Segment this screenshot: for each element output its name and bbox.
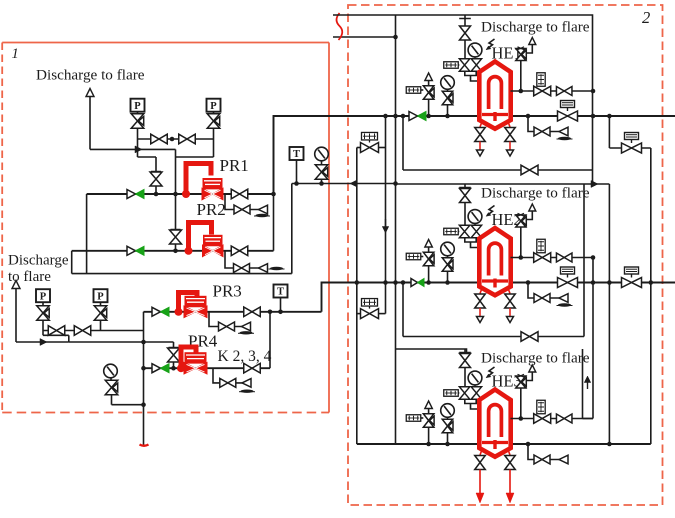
module HE2 flare valve column [464, 184, 466, 226]
flow arrow on flare header [135, 146, 142, 153]
pressure instrument P2 [207, 99, 221, 112]
letdown valve 1 [361, 143, 379, 153]
three-way valve under P4 [102, 309, 107, 318]
vent arrow HE1 [529, 38, 536, 45]
svg-text:PR1: PR1 [220, 156, 249, 175]
wire main inlet riser x143.5 [143, 312, 145, 445]
outlet valve HE1-1 [534, 86, 551, 96]
valve V2 on row y139 [179, 134, 196, 144]
wire jog drop x68.8 [68, 335, 70, 342]
pressure gauge G1 [315, 147, 329, 161]
drain branch blob HE2 [558, 303, 571, 306]
wire P3 column [42, 320, 44, 335]
wire header y342 to PR4 column [69, 341, 174, 343]
wire aftercooler drain branch HE1 [528, 116, 534, 132]
module HE1 flare valve column [464, 15, 466, 59]
pressure gauge HE3-a [468, 371, 482, 385]
hatched restriction HE3-a [444, 390, 459, 397]
vent arrow column HE3 [425, 401, 433, 409]
junction dot x272 y194 [271, 192, 276, 197]
valve on PR1 drain [234, 205, 250, 214]
drain branch blob HE1 [558, 137, 571, 140]
flare vent arrow A [86, 89, 94, 97]
wire riser x321.5 and main2 feed [322, 283, 346, 312]
vent arrow HE3 [529, 365, 536, 372]
red break tick on inlet riser [140, 445, 149, 446]
modules left edge x395.5 [395, 15, 397, 444]
svg-text:P: P [210, 101, 217, 112]
isolation valve on x156 [150, 172, 162, 186]
wire drain y404.7 [112, 404, 144, 406]
vent valve HE2 [522, 217, 527, 226]
pressure gauge HE1-b [441, 76, 455, 90]
wire letdown riser x356.8 [356, 148, 358, 445]
svg-text:1: 1 [12, 46, 19, 62]
module HE2 box right edge [583, 184, 585, 337]
isolation valve on x175.5 [170, 230, 182, 244]
wire flare riser B [15, 289, 17, 343]
motor valve HE2 on main [558, 278, 578, 288]
wire valve row y139 [138, 138, 214, 140]
pressure regulator PR1 [182, 190, 190, 198]
wire vent spur HE1 [526, 45, 532, 54]
wire aftercooler drain branch HE3 [528, 444, 534, 460]
wire column x650.8 [650, 148, 652, 444]
pressure regulator PR4 [177, 364, 185, 372]
heat exchanger vessel HE3 [479, 390, 510, 457]
wire column x175.5 [175, 149, 177, 194]
junction dot x156 y194 [154, 192, 159, 197]
wire riser x385.5 [385, 116, 387, 314]
wire gauge stem HE1 [447, 105, 449, 116]
svg-text:T: T [277, 287, 284, 298]
wire block valve bracket HE2 [465, 238, 476, 242]
double block valves HE3 [459, 387, 470, 400]
vent valve HE1 [522, 50, 527, 59]
junction dot x173.5 y368.2 [171, 366, 176, 371]
vessel tube sheet HE3 [482, 441, 508, 444]
heat exchanger vessel HE1 [479, 62, 510, 129]
gauge block valve HE2 [449, 260, 454, 269]
module HE3 box top [396, 349, 467, 355]
valve after PR2 [231, 246, 248, 256]
svg-text:Discharge to flare: Discharge to flare [36, 67, 145, 84]
pressure gauge HE2-a [468, 210, 482, 224]
vent three-way valve HE2 [430, 255, 435, 264]
vessel drain valve HE3 left [480, 451, 482, 455]
outlet valve HE2-2 [556, 253, 572, 262]
letdown bridge 1 wire [357, 147, 361, 149]
letdown valve 2 [361, 309, 379, 319]
double block valves HE2 [459, 225, 470, 238]
svg-text:K 2, 3, 4: K 2, 3, 4 [218, 348, 272, 365]
pressure regulator PR2 [185, 247, 193, 255]
valve V4 on row y330.5 [74, 326, 91, 336]
check valve CV1 [127, 190, 136, 199]
wire P1 column [137, 128, 139, 157]
wire riser x270 [269, 312, 271, 368]
wire PR1 pipe y194 [87, 193, 274, 195]
valve after PR4 [244, 363, 261, 373]
svg-text:Discharge to flare: Discharge to flare [481, 350, 590, 367]
vent three-way valve HE1 [430, 88, 435, 97]
letdown valve 2 actuator [362, 299, 378, 307]
module HE3 box right edge [582, 349, 584, 419]
vessel U-tube HE2 [489, 243, 502, 275]
pressure gauge HE1-a [468, 43, 482, 57]
flow arrow down on riser x385.5 [385, 219, 387, 231]
wire block valve bracket HE1 [465, 71, 476, 75]
valve V3 on row y330.5 [48, 326, 65, 336]
drain blob PR1 [256, 214, 269, 217]
junction dots on main 2 [426, 280, 431, 285]
motor valve HE1 on main [558, 111, 578, 121]
flare vent arrow B [12, 281, 20, 289]
valve V1 on row y139 [151, 134, 168, 144]
unit 2 boundary box [348, 5, 663, 505]
svg-text:Discharge to flare: Discharge to flare [481, 19, 590, 36]
three-way valve under P3 [44, 309, 49, 318]
wire valve row y330.5 [43, 330, 144, 332]
wire jog y335.3 [43, 334, 69, 336]
vessel vent column HE1 [520, 60, 522, 91]
vent valve HE3 [522, 378, 527, 387]
temperature instrument T2 [274, 285, 288, 298]
wire T2 stem [280, 298, 282, 312]
lightning flash HE3 [487, 367, 494, 377]
end cap PR3 drain [242, 322, 251, 331]
wire block valve bracket HE3 [465, 399, 476, 403]
wire main line 2 [345, 282, 675, 284]
svg-text:P: P [134, 101, 141, 112]
letdown bridge 2 wire [357, 313, 361, 315]
hatched column HE3 [537, 400, 545, 414]
outlet valve HE3-1 [534, 414, 551, 424]
module HE2 box top [396, 183, 610, 185]
vessel drain valve HE2 right [509, 290, 511, 294]
module HE3 flare valve column [464, 349, 466, 387]
wire bypass riser HE1 [402, 116, 404, 170]
pressure instrument P1 [131, 99, 145, 112]
hatched restriction HE1-a [444, 62, 459, 69]
svg-text:P: P [40, 291, 47, 302]
flow arrow on flare header B [40, 339, 47, 346]
pressure regulator PR3 [175, 308, 183, 316]
wire P4 stem [100, 302, 102, 306]
wire G1 stem [321, 161, 323, 165]
wire P4 column [100, 320, 102, 331]
pressure instrument P3 [36, 289, 50, 302]
check valve CV2 [127, 246, 136, 255]
wire main line 1 [345, 115, 675, 117]
wire vent spur HE2 [526, 211, 532, 220]
hatched restriction HE3-b [406, 415, 421, 422]
drain blob PR4 [241, 390, 254, 393]
svg-text:P: P [97, 291, 104, 302]
wire bypass line HE2 [403, 336, 584, 338]
bypass valve HE2 [521, 332, 538, 342]
wire T1 stem [296, 160, 298, 184]
vessel vent column HE3 [520, 388, 522, 419]
vessel drain valve HE1 left [480, 123, 482, 127]
wire sense line y183.5 [292, 183, 396, 185]
wire gauge stem HE2 [447, 271, 449, 282]
wire P2 stem [213, 112, 215, 114]
three-way valve under G2 [113, 383, 118, 392]
unit 1 boundary box [2, 42, 329, 44]
wire sense column x156 [155, 157, 157, 194]
wire jog y157 right [176, 156, 214, 158]
vessel drain valve HE1 right [509, 123, 511, 127]
wire G2 stem [110, 378, 112, 381]
bypass valve HE1 [521, 165, 538, 175]
heat exchanger vessel HE2 [479, 228, 510, 295]
check valve HE1 [409, 112, 418, 121]
svg-text:T: T [293, 149, 300, 160]
wire spare header y37 [333, 36, 396, 38]
vent arrow HE2 [529, 204, 536, 211]
flare isolation valve HE1 [460, 26, 471, 40]
junction dot PR4 feed [141, 366, 146, 371]
wire outlet nozzle line HE3 [511, 418, 594, 420]
junction dot x650.8 y282.5 [649, 280, 654, 285]
wire PR4 drain branch [213, 368, 220, 383]
red line-break squiggle [337, 13, 343, 40]
drain branch end cap HE2 [559, 294, 568, 303]
wire flare riser A [89, 97, 91, 150]
vent arrow column HE1 [425, 73, 433, 81]
isolation valve on x173.5 [168, 348, 180, 362]
wire main line 1 start [274, 116, 346, 194]
lightning flash HE1 [487, 39, 494, 49]
three-way valve under P1 [139, 117, 144, 126]
three-way valve under P2 [215, 117, 220, 126]
vessel drain valve HE2 left [480, 290, 482, 294]
flow arrow up beside x593 [587, 378, 589, 389]
motor valve MV-B [622, 278, 642, 288]
wire PR1 drain branch [225, 194, 234, 210]
junction dots left risers [383, 114, 388, 119]
svg-text:PR2: PR2 [197, 200, 226, 219]
flare isolation valve HE2 [460, 189, 471, 203]
junction dot x270 y311.8 [268, 310, 273, 315]
drain arrows HE1 [479, 142, 481, 151]
outlet valve HE1-2 [556, 87, 572, 96]
wire main line 3 [357, 443, 651, 445]
junction dot x175.5 y251 [173, 249, 178, 254]
wire jog y157 left [138, 156, 157, 158]
wire transfer column x609.4 [608, 116, 610, 148]
wire PR4 column x173.5 [173, 342, 175, 368]
hatched column HE1 [537, 73, 545, 87]
drain blob PR2 [270, 267, 283, 270]
vessel drain valve HE3 right [509, 451, 511, 455]
check valve HE2 [411, 279, 418, 287]
valve on PR3 drain [219, 322, 235, 331]
hatched restriction HE2-a [444, 228, 459, 235]
wire gauge stem HE3 [447, 433, 449, 444]
wire P3 stem [42, 302, 44, 306]
wire bypass line HE1 [403, 169, 593, 171]
check valve CV3 [152, 307, 161, 316]
wire transfer column x593 [592, 258, 594, 419]
wire bypass riser HE2 [402, 283, 404, 337]
drain branch end cap HE1 [559, 127, 568, 136]
wire PR2 loop bottom y273.6 [72, 273, 292, 275]
valve after PR1 [231, 189, 248, 199]
vent three-way valve HE3 [430, 416, 435, 425]
vessel tube sheet HE1 [482, 113, 508, 116]
wire PR3 pipe y311.8 [144, 311, 322, 313]
lightning flash HE2 [487, 206, 494, 216]
junction dot x175.5 y194 [173, 192, 178, 197]
drain blob PR3 [240, 331, 253, 334]
hatched column HE2 [537, 239, 545, 253]
vent arrow column HE2 [425, 240, 433, 248]
pressure gauge HE2-b [441, 242, 455, 256]
flow arrow HE2 top edge [591, 181, 598, 188]
pressure instrument P4 [94, 289, 108, 302]
pressure gauge G2 [104, 364, 118, 378]
wire vent spur HE3 [526, 372, 532, 381]
svg-text:2: 2 [642, 8, 650, 27]
outlet valve HE2-1 [534, 253, 551, 263]
svg-text:Discharge: Discharge [8, 253, 69, 269]
drain branch valve HE1 [534, 127, 550, 136]
wire PR2 drain branch [225, 251, 233, 268]
wire outlet nozzle line HE1 [511, 90, 594, 92]
drain branch end cap HE3 [559, 455, 568, 464]
drain arrows HE2 [479, 308, 481, 317]
double block valves HE1 [459, 59, 470, 72]
svg-text:Discharge to flare: Discharge to flare [481, 185, 590, 202]
drain branch valve HE3 [534, 455, 550, 464]
wire P1 stem [137, 112, 139, 114]
junction dots on main 1 [426, 114, 431, 119]
hatched restriction HE1-b [406, 87, 421, 94]
wire HE3 nozzle corner [583, 418, 594, 420]
wire PR2 pipe y251 [72, 250, 274, 252]
gauge block valve HE1 [449, 94, 454, 103]
vessel tube sheet HE2 [482, 279, 508, 282]
end cap PR2 drain [259, 264, 268, 273]
temperature instrument T1 [290, 147, 304, 160]
junction dots on main 3 [426, 442, 431, 447]
flow arrow on sense line [350, 180, 357, 187]
valve on PR2 drain [234, 264, 250, 273]
vessel U-tube HE3 [489, 405, 502, 437]
flare isolation valve HE3 [460, 354, 471, 368]
wire motor-valve branch y148 [609, 147, 650, 149]
svg-text:PR3: PR3 [213, 282, 242, 301]
hatched restriction HE2-b [406, 253, 421, 260]
junction dot row y139 [170, 137, 175, 142]
outlet valve HE3-2 [556, 414, 572, 423]
wire PR2 loop riser x71.7 [71, 251, 73, 274]
wire P2 column [213, 128, 215, 157]
module HE1 box [333, 15, 593, 184]
vessel U-tube HE1 [489, 77, 502, 109]
junction dots x593 [591, 89, 596, 94]
drain branch valve HE2 [534, 294, 550, 303]
gauge block valve HE3 [449, 422, 454, 431]
motor valve MV-A [622, 143, 642, 153]
end cap PR1 drain [259, 205, 268, 214]
wire aftercooler drain branch HE2 [528, 283, 534, 299]
drain arrows HE3 [479, 470, 481, 494]
wire column x175.5 to PR2 [175, 194, 177, 251]
three-way valve under G1 [323, 168, 328, 177]
wire PR3 drain branch [209, 312, 218, 327]
end cap PR4 drain [242, 379, 251, 388]
wire flare header y149 [90, 148, 176, 150]
pressure gauge HE3-b [441, 404, 455, 418]
valve on PR4 drain [220, 378, 236, 387]
wire PR1 feed riser x86.6 [86, 194, 88, 274]
letdown valve 1 actuator [362, 132, 378, 140]
wire PR4 pipe y368.2 [144, 367, 271, 369]
junction dots x609.4 [607, 114, 612, 119]
wire x272 main riser [273, 116, 275, 251]
check valve CV4 [152, 364, 161, 373]
vessel vent column HE2 [520, 227, 522, 258]
junction dot x143.5 y404.7 [141, 402, 146, 407]
wire riser x291.8 [291, 184, 293, 274]
valve after PR3 [244, 307, 261, 317]
wire outlet nozzle line HE2 [511, 257, 594, 259]
wire flare header y342 [16, 341, 69, 343]
